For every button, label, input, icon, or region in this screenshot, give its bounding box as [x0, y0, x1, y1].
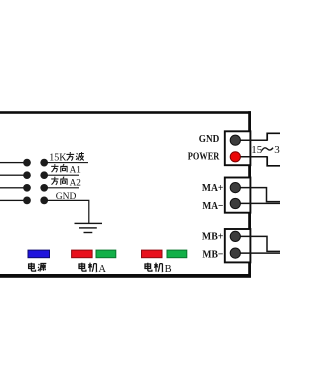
svg-text:A1: A1 [70, 165, 82, 175]
legend motorA red swatch [72, 250, 93, 258]
legend power swatch [28, 250, 50, 258]
svg-text:MB+: MB+ [202, 231, 224, 243]
legend 电机B label [145, 263, 172, 275]
pin P3 left [23, 184, 31, 192]
pin P4 left [23, 197, 31, 205]
svg-text:15K: 15K [49, 153, 67, 164]
wire POWER terminal to supply [235, 156, 267, 158]
svg-text:A: A [98, 264, 106, 275]
ground symbol [75, 223, 103, 234]
board right edge [248, 111, 251, 277]
label 15K方波 [49, 152, 84, 164]
board bottom edge [0, 274, 251, 278]
svg-text:MA−: MA− [202, 200, 223, 212]
terminal POWER contact [230, 152, 240, 162]
label 方向A1 [51, 164, 81, 175]
board top edge [0, 111, 251, 114]
legend motorB red swatch [142, 250, 163, 258]
svg-text:B: B [165, 264, 172, 275]
terminal block J3 MB [225, 229, 251, 262]
legend 电机A label [79, 263, 106, 275]
wire MB- [235, 252, 280, 254]
wire input row 2 [0, 175, 24, 176]
pin P2 right [40, 171, 48, 179]
wire MA+ [235, 188, 280, 202]
terminal MB- contact [230, 248, 240, 258]
svg-text:36V: 36V [274, 144, 280, 156]
pin P1 left [23, 159, 31, 167]
wire input row 1 [0, 162, 24, 163]
svg-text:GND: GND [199, 133, 220, 145]
power supply box [267, 133, 280, 166]
terminal MA- contact [230, 198, 240, 208]
wire GND terminal to supply [235, 139, 267, 141]
svg-text:15: 15 [251, 144, 262, 156]
wire stub A1 [47, 175, 79, 176]
legend 电源 label [29, 263, 47, 272]
pin P2 left [23, 171, 31, 179]
wire input row 4 [0, 200, 24, 201]
pin P1 right [40, 159, 48, 167]
terminal MB+ contact [230, 231, 240, 241]
svg-text:GND: GND [56, 192, 77, 202]
wire input row 3 [0, 187, 24, 188]
wire MA- [235, 202, 280, 204]
svg-text:A2: A2 [70, 177, 82, 187]
terminal GND contact [230, 135, 240, 145]
terminal MA+ contact [230, 183, 240, 193]
legend motorA green swatch [96, 250, 116, 258]
svg-text:POWER: POWER [188, 150, 220, 162]
legend motorB green swatch [167, 250, 187, 258]
wire stub A2 [47, 187, 79, 188]
wire GND to ground [47, 200, 89, 223]
wire MB+ [235, 236, 280, 251]
pin P4 right [40, 197, 48, 205]
svg-text:MA+: MA+ [202, 182, 224, 194]
pin P3 right [40, 184, 48, 192]
svg-text:MB−: MB− [202, 248, 223, 260]
wire stub 15K [47, 162, 88, 163]
label supply voltage 15~36V [251, 144, 293, 156]
terminal block J2 MA [225, 178, 251, 213]
label 方向A2 [51, 177, 81, 188]
terminal block J1 GND/POWER [225, 131, 251, 165]
